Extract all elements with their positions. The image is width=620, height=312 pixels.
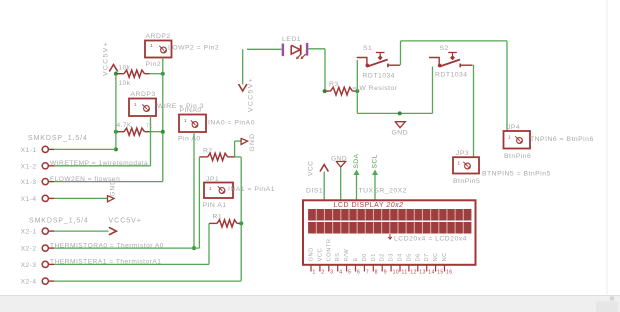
svg-text:E: E bbox=[353, 257, 359, 261]
connector pin X1-1 label bbox=[21, 147, 37, 154]
svg-text:NC: NC bbox=[433, 252, 439, 261]
ground symbol at X1-4 bbox=[108, 179, 117, 202]
LED LED1 terminal bar right bbox=[306, 43, 308, 56]
svg-text:X1-1: X1-1 bbox=[21, 147, 37, 154]
resistor R1 bbox=[209, 220, 241, 227]
svg-text:4.7K: 4.7K bbox=[117, 122, 133, 129]
scrollbar corner bbox=[596, 297, 618, 312]
ground symbol (LCD) bbox=[336, 162, 346, 168]
ARDP3 header symbol bbox=[142, 104, 149, 111]
svg-text:TUXGR_20X2: TUXGR_20X2 bbox=[359, 188, 407, 195]
resistor R1 label bbox=[213, 214, 223, 221]
svg-text:GND: GND bbox=[110, 179, 117, 196]
connector pin X2-3 bbox=[42, 261, 54, 267]
svg-text:12: 12 bbox=[410, 270, 417, 276]
JP3 header symbol bbox=[463, 162, 470, 169]
svg-text:LCD DISPLAY 20x2: LCD DISPLAY 20x2 bbox=[334, 202, 404, 209]
part label TUXGR_20X2 bbox=[359, 188, 407, 195]
svg-text:D7: D7 bbox=[424, 253, 430, 261]
net label WIRETEMP = 1wiretempdata bbox=[50, 160, 148, 167]
svg-text:6: 6 bbox=[357, 270, 360, 276]
junction dot GND rail bbox=[398, 111, 402, 115]
connector JP1 bbox=[204, 183, 233, 199]
svg-text:RS: RS bbox=[335, 252, 341, 261]
JP1 header symbol bbox=[218, 186, 225, 193]
scrollbar track line bbox=[606, 0, 608, 296]
ARDP2 header symbol bbox=[159, 46, 166, 53]
svg-text:RDT1034: RDT1034 bbox=[435, 72, 468, 79]
junction dot Pin2/10k bbox=[161, 72, 165, 76]
svg-text:DIS1: DIS1 bbox=[306, 188, 323, 195]
LCD pin stubs and numbers 1-16 bbox=[311, 265, 453, 276]
JP4 header symbol bbox=[515, 136, 522, 143]
LED LED1 label bbox=[282, 36, 301, 43]
wire to LED anode bbox=[247, 48, 282, 50]
svg-text:X1-2: X1-2 bbox=[21, 163, 37, 170]
JP1 pin 1 number bbox=[209, 186, 212, 191]
power label VCC (LCD) bbox=[308, 161, 315, 176]
connector pin X1-4 label bbox=[21, 196, 37, 203]
svg-text:BtnPin6: BtnPin6 bbox=[504, 153, 531, 160]
ground symbol (right arrow) bbox=[241, 133, 256, 152]
svg-text:PIN A1: PIN A1 bbox=[203, 202, 227, 209]
svg-text:ARDP2: ARDP2 bbox=[146, 33, 171, 40]
junction dot R1 right bbox=[239, 221, 243, 225]
svg-text:10: 10 bbox=[393, 270, 400, 276]
svg-text:7: 7 bbox=[366, 270, 369, 276]
wire X1-3 bbox=[54, 181, 163, 183]
pin name Pin A0 bbox=[178, 136, 201, 143]
wire GND stub down-jog bbox=[235, 141, 241, 157]
net label LCD20x4 = LCD20x4 bbox=[388, 234, 467, 243]
wire VCC to 10k junction bbox=[115, 72, 117, 74]
svg-text:TNPIN6 = BtnPin6: TNPIN6 = BtnPin6 bbox=[530, 136, 594, 143]
wire R1 left down to X2-3 bbox=[208, 223, 210, 264]
pin name Pin2 bbox=[146, 61, 162, 68]
connector X2 label SMKDSP_1,5/4 bbox=[29, 218, 89, 225]
svg-text:SMKDSP_1,5/4: SMKDSP_1,5/4 bbox=[28, 135, 88, 142]
connector JP1 label bbox=[206, 176, 219, 183]
svg-text:LED1: LED1 bbox=[282, 36, 301, 43]
net label INA1 = PinA1 bbox=[228, 186, 275, 193]
svg-text:GND: GND bbox=[392, 130, 409, 137]
value label W Resistor bbox=[353, 85, 398, 92]
svg-text:D1: D1 bbox=[371, 253, 377, 261]
connector pin X1-2 bbox=[42, 163, 54, 169]
svg-text:JP3: JP3 bbox=[456, 150, 469, 157]
connector pin X1-4 bbox=[42, 195, 54, 201]
svg-text:INA0 = PinA0: INA0 = PinA0 bbox=[208, 120, 255, 127]
resistor R3 label bbox=[329, 81, 339, 88]
connector pin X1-2 label bbox=[21, 163, 37, 170]
pin name BtnPin6 bbox=[504, 153, 531, 160]
resistor 10k bbox=[116, 70, 150, 77]
LED LED1 bbox=[291, 45, 306, 59]
svg-text:SDA: SDA bbox=[353, 153, 360, 168]
resistor 10k value label bbox=[119, 80, 131, 87]
connector PINA0 label bbox=[180, 107, 202, 114]
connector pin X2-2 label bbox=[21, 246, 37, 253]
connector ARDP2 bbox=[145, 41, 172, 58]
svg-text:D4: D4 bbox=[398, 253, 404, 262]
svg-text:10k: 10k bbox=[119, 65, 131, 72]
resistor R2 label bbox=[203, 148, 213, 155]
wire S1 left to R3 bbox=[356, 60, 358, 91]
junction dot at 10k left bbox=[114, 72, 118, 76]
svg-text:GND: GND bbox=[249, 133, 256, 152]
wire X2-4 bbox=[54, 280, 241, 282]
svg-text:VCC5V+: VCC5V+ bbox=[103, 41, 110, 76]
svg-text:16: 16 bbox=[446, 270, 453, 276]
connector ARDP2 label bbox=[146, 33, 171, 40]
net label THERMISTORA0 bbox=[50, 242, 164, 249]
wire 10k to Pin2 net bbox=[150, 73, 163, 75]
JP4 pin 1 number bbox=[508, 135, 511, 140]
svg-text:PINA0: PINA0 bbox=[180, 107, 202, 114]
svg-text:LCD20x4 = LCD20x4: LCD20x4 = LCD20x4 bbox=[394, 236, 467, 243]
svg-text:D3: D3 bbox=[389, 253, 395, 261]
svg-text:X2-1: X2-1 bbox=[21, 229, 37, 236]
svg-text:D5: D5 bbox=[406, 253, 412, 261]
svg-text:D2: D2 bbox=[380, 253, 386, 261]
net label FLOW2EN = flowsen bbox=[50, 176, 120, 183]
svg-text:S2: S2 bbox=[440, 45, 449, 52]
svg-text:X2-3: X2-3 bbox=[21, 262, 37, 269]
svg-text:SCL: SCL bbox=[372, 154, 379, 168]
resistor R3 bbox=[325, 87, 358, 95]
svg-text:VCC5V+: VCC5V+ bbox=[109, 218, 142, 225]
svg-text:1: 1 bbox=[150, 43, 153, 48]
ground symbol GND (rail) bbox=[392, 122, 409, 137]
net label BTNPIN6 = BtnPin6 bbox=[530, 136, 594, 143]
power symbol VCC5V+ (arrow down) bbox=[239, 77, 255, 112]
svg-text:VCC5V+: VCC5V+ bbox=[248, 77, 255, 112]
net label SDA bbox=[353, 153, 360, 168]
connector pin X2-1 bbox=[42, 228, 54, 234]
PINA0 pin 1 number bbox=[184, 118, 187, 123]
junction dot 4.7K right bbox=[161, 130, 165, 134]
connector JP4 bbox=[504, 131, 531, 149]
svg-text:SMKDSP_1,5/4: SMKDSP_1,5/4 bbox=[29, 218, 89, 225]
JP3 pin 1 number bbox=[458, 161, 461, 166]
junction dot R3 left bbox=[323, 89, 327, 93]
svg-text:BtnPin5: BtnPin5 bbox=[453, 178, 480, 185]
connector pin X2-4 bbox=[42, 278, 54, 284]
connector pin X2-3 label bbox=[21, 262, 37, 269]
svg-text:5: 5 bbox=[348, 270, 351, 276]
wire S1 right up bbox=[400, 41, 402, 65]
svg-text:1: 1 bbox=[508, 135, 511, 140]
svg-text:VCC: VCC bbox=[308, 161, 315, 176]
svg-text:X2-2: X2-2 bbox=[21, 246, 37, 253]
switch S1 value RDT1034 bbox=[363, 73, 396, 80]
wire S2 left down to rail bbox=[432, 67, 434, 114]
part label DIS1 bbox=[306, 188, 323, 195]
resistor R2 bbox=[199, 153, 234, 160]
junction dot 4.7K left bbox=[114, 130, 118, 134]
svg-text:LOWP2 = Pin2: LOWP2 = Pin2 bbox=[168, 45, 219, 52]
wire X2-2 bbox=[54, 247, 199, 249]
connector pin X1-1 bbox=[42, 146, 54, 152]
power symbol VCC5V+ (top left) bbox=[103, 41, 118, 76]
ground label GND (LCD) bbox=[331, 156, 347, 163]
LED LED1 terminal bar left bbox=[282, 44, 284, 57]
power label VCC5V+ at X2-1 bbox=[109, 218, 142, 225]
svg-text:11: 11 bbox=[402, 270, 408, 276]
net stub SDA bbox=[354, 170, 360, 201]
net label 1WIRE = Pin 3 bbox=[157, 103, 204, 110]
svg-text:8: 8 bbox=[375, 270, 378, 276]
connector X1 label SMKDSP_1,5/4 bbox=[28, 135, 88, 142]
junction dot PINA0/X2-2 bbox=[192, 246, 196, 250]
LCD character grid (2x20 cells) bbox=[308, 209, 471, 234]
wire X1-4 to GND bbox=[54, 197, 107, 199]
svg-text:14: 14 bbox=[428, 270, 435, 276]
wire LED anode to VCC bbox=[242, 49, 244, 84]
wire R3 down to GND rail bbox=[356, 91, 358, 113]
connector pin X2-1 label bbox=[21, 229, 37, 236]
wire X1-1 to VCC rail bbox=[54, 148, 116, 150]
wire LED cathode to R3 bbox=[308, 49, 325, 91]
svg-text:GND: GND bbox=[309, 247, 315, 261]
svg-text:X1-4: X1-4 bbox=[21, 196, 37, 203]
svg-text:JP4: JP4 bbox=[507, 124, 520, 131]
svg-text:9: 9 bbox=[384, 270, 387, 276]
net label BTNPIN5 = BtnPin5 bbox=[482, 171, 551, 178]
wire JP4 drop bbox=[506, 41, 508, 131]
connector pin X1-3 bbox=[42, 179, 54, 185]
resistor 4.7K bbox=[116, 124, 153, 136]
svg-text:13: 13 bbox=[419, 270, 426, 276]
svg-text:BTNPIN5 = BtnPin5: BTNPIN5 = BtnPin5 bbox=[482, 171, 551, 178]
svg-text:1: 1 bbox=[458, 161, 461, 166]
net label THERMISTERA1 bbox=[50, 259, 161, 266]
resistor 10k label bbox=[119, 65, 131, 72]
wire net D vertical bbox=[240, 157, 242, 281]
net stub SCL bbox=[372, 170, 378, 201]
junction dot at X1-1 wire bbox=[114, 147, 118, 151]
wire top to JP4 bbox=[401, 40, 508, 42]
wire GND to LCD bbox=[340, 167, 342, 200]
connector JP3 label bbox=[456, 150, 469, 157]
wire X1-2 bbox=[54, 165, 151, 167]
connector pin X2-4 label bbox=[21, 279, 37, 286]
svg-text:1: 1 bbox=[209, 186, 212, 191]
wire GND rail bbox=[357, 112, 432, 114]
svg-text:1: 1 bbox=[313, 270, 316, 276]
wire S2 right down to JP3 bbox=[473, 65, 475, 157]
connector ARDP3 bbox=[129, 99, 156, 117]
svg-text:3: 3 bbox=[330, 270, 333, 276]
LCD title LCD DISPLAY 20x2 bbox=[334, 202, 404, 209]
svg-text:Pin2: Pin2 bbox=[146, 61, 162, 68]
svg-text:1: 1 bbox=[184, 118, 187, 123]
svg-text:NC: NC bbox=[442, 252, 448, 261]
wire R2 to GND stub bbox=[235, 140, 241, 142]
svg-text:VCC: VCC bbox=[317, 248, 323, 262]
connector JP4 label bbox=[507, 124, 520, 131]
net label LOWP2 = Pin2 bbox=[168, 45, 219, 52]
LCD module outline bbox=[303, 200, 476, 264]
switch S1 bbox=[357, 53, 401, 68]
power symbol VCC5V+ (right arrow) bbox=[109, 227, 117, 235]
wire ARDP2 down to X1-3 (net Pin2) bbox=[162, 58, 164, 182]
resistor 4.7K label bbox=[117, 122, 133, 129]
net label SCL bbox=[372, 154, 379, 168]
switch S2 label bbox=[440, 45, 449, 52]
svg-text:10k: 10k bbox=[119, 80, 131, 87]
switch S1 label bbox=[363, 45, 372, 52]
wire ARDP3 down to X1-2 bbox=[150, 116, 152, 166]
wire X2-1 to VCC arrow bbox=[54, 230, 109, 232]
svg-text:2: 2 bbox=[321, 270, 324, 276]
svg-text:R1: R1 bbox=[213, 214, 223, 221]
pin name PIN A1 bbox=[203, 202, 227, 209]
wire PINA0 down to X2-2 net bbox=[193, 132, 195, 248]
wire X2-3 bbox=[54, 263, 209, 265]
svg-text:1: 1 bbox=[134, 102, 137, 107]
wire VCC rail down left bbox=[115, 74, 117, 150]
ARDP3 pin 1 number bbox=[134, 102, 137, 107]
svg-text:7k: 7k bbox=[146, 124, 152, 130]
wire R2 left down to X2-2 (net C) bbox=[198, 157, 200, 248]
svg-text:Pin A0: Pin A0 bbox=[178, 136, 201, 143]
svg-text:= W Resistor: = W Resistor bbox=[353, 85, 398, 92]
wire VCC to LCD bbox=[323, 172, 325, 201]
svg-text:R2: R2 bbox=[203, 148, 213, 155]
junction dot R3 right bbox=[355, 89, 359, 93]
LCD pin name labels bbox=[309, 238, 449, 261]
ARDP2 pin 1 number bbox=[150, 43, 153, 48]
switch S2 value RDT1034 bbox=[435, 72, 468, 79]
svg-text:15: 15 bbox=[437, 270, 444, 276]
wire 4.7K to Pin2 vertical bbox=[150, 131, 163, 133]
PINA0 header symbol bbox=[191, 120, 198, 127]
pin name BtnPin5 bbox=[453, 178, 480, 185]
status bar bbox=[0, 296, 620, 312]
svg-text:D0: D0 bbox=[362, 253, 368, 261]
svg-text:S1: S1 bbox=[363, 45, 372, 52]
svg-text:CONTR: CONTR bbox=[326, 238, 332, 261]
svg-text:D6: D6 bbox=[415, 253, 421, 261]
svg-text:X1-3: X1-3 bbox=[21, 179, 37, 186]
svg-text:X2-4: X2-4 bbox=[21, 279, 37, 286]
svg-text:4: 4 bbox=[339, 270, 342, 276]
connector JP3 bbox=[453, 157, 479, 173]
switch S2 bbox=[429, 53, 473, 68]
net label INA0 = PinA0 bbox=[208, 120, 255, 127]
svg-text:RDT1034: RDT1034 bbox=[363, 73, 396, 80]
power symbol VCC (LCD arrow up) bbox=[320, 165, 328, 172]
svg-text:R/W: R/W bbox=[344, 249, 350, 262]
connector PINA0 bbox=[179, 115, 206, 133]
connector pin X1-3 label bbox=[21, 179, 37, 186]
connector ARDP3 label bbox=[131, 91, 156, 98]
svg-text:INA1 = PinA1: INA1 = PinA1 bbox=[228, 186, 275, 193]
svg-text:ARDP3: ARDP3 bbox=[131, 91, 156, 98]
connector pin X2-2 bbox=[42, 245, 54, 251]
